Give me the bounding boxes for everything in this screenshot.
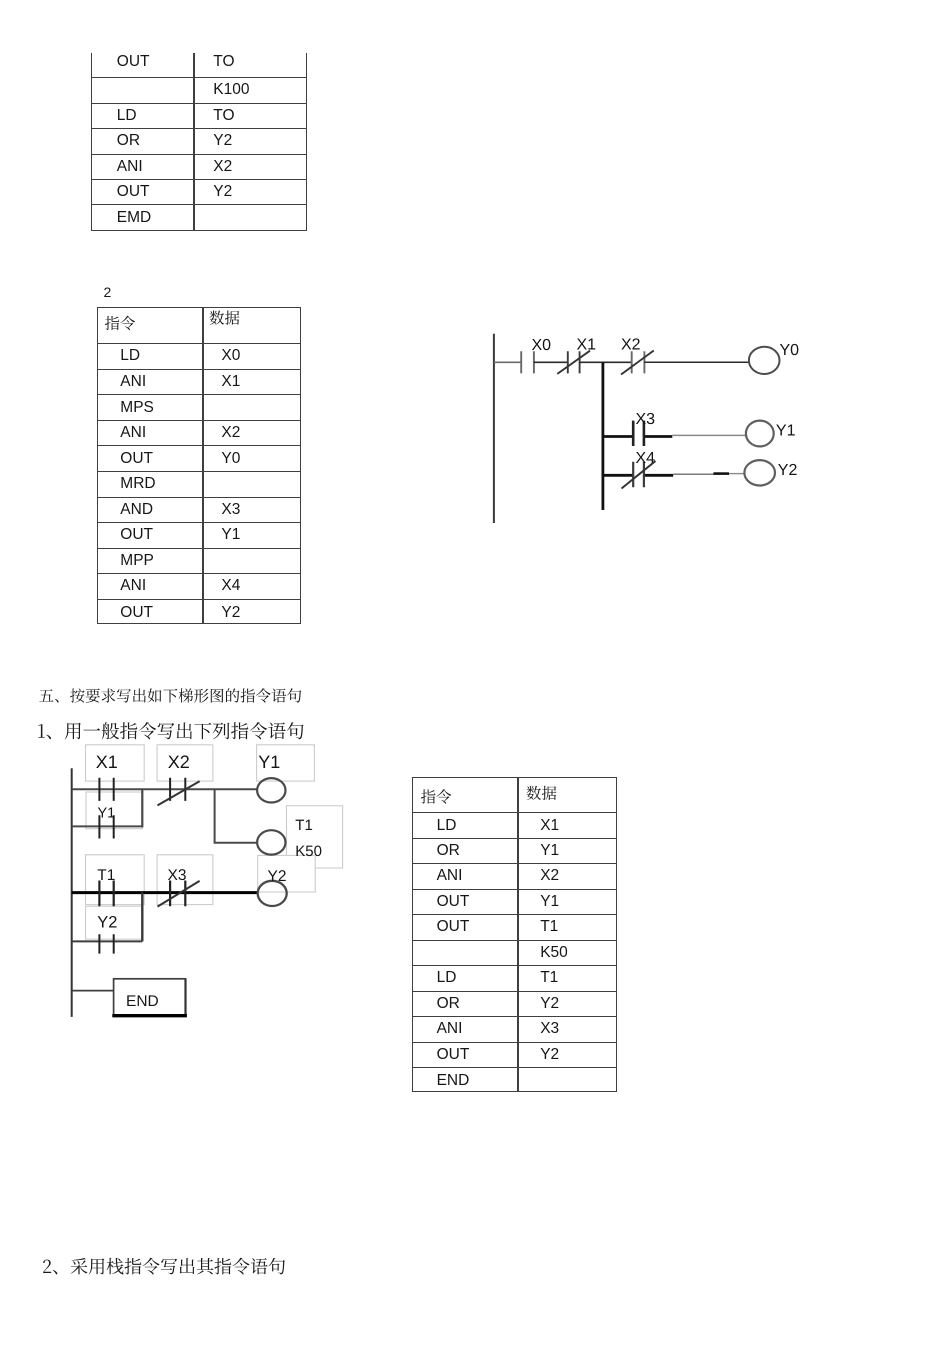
label box Y1 (coil) bbox=[257, 745, 315, 781]
contact X4 (NC) bbox=[633, 462, 644, 488]
Y2 parallel branch wire bbox=[72, 940, 143, 942]
Y1 branch riser bbox=[141, 789, 143, 827]
header 数据 table2 bbox=[210, 311, 240, 325]
rung1 wire bbox=[72, 788, 257, 790]
left power rail bbox=[493, 334, 495, 523]
rung3 thick wire bbox=[603, 474, 673, 477]
label box T1 K50 bbox=[287, 806, 343, 868]
label box T1 (left) bbox=[86, 855, 145, 905]
contact Y1 bbox=[99, 815, 113, 838]
label box Y2 (branch) bbox=[86, 906, 143, 939]
ladder diagram 2 (bottom left) bbox=[40, 735, 360, 1030]
END block bbox=[114, 979, 186, 1016]
END rung wire bbox=[72, 990, 114, 992]
heading 1、用一般指令写出下列指令语句 bbox=[38, 722, 303, 739]
label box Y1 (branch) bbox=[86, 792, 142, 829]
coil Y2 bbox=[744, 460, 775, 485]
junction vertical bus bbox=[602, 362, 605, 510]
ladder diagram 1 (top right) bbox=[470, 320, 830, 535]
contact X1 (NC) bbox=[568, 351, 580, 373]
branch wire to T1 coil bbox=[215, 789, 258, 842]
header 数据 table3 bbox=[526, 786, 556, 800]
rung3 wire (bold) bbox=[72, 891, 258, 894]
contact X0 bbox=[521, 351, 534, 373]
coil Y1 bbox=[746, 421, 774, 447]
heading 2、采用栈指令写出其指令语句 bbox=[43, 1258, 285, 1275]
coil Y2 bbox=[258, 881, 287, 906]
label 2 bbox=[104, 284, 112, 300]
contact X2 (NC) bbox=[170, 778, 185, 801]
label box X3 bbox=[157, 855, 213, 905]
coil Y1 bbox=[257, 778, 285, 802]
contact X2 (NC) bbox=[632, 351, 645, 373]
Y1 parallel branch wire bbox=[72, 825, 143, 827]
label box X1 bbox=[86, 745, 145, 781]
wire X1 to X2 bbox=[580, 361, 632, 363]
label box Y2 (coil) bbox=[258, 855, 316, 892]
rung2 thick wire bbox=[603, 435, 672, 438]
header 指令 table3 bbox=[421, 789, 451, 803]
heading 五、按要求写出如下梯形图的指令语句 bbox=[39, 688, 301, 702]
contact T1 bbox=[99, 881, 113, 907]
contact X1 bbox=[99, 778, 113, 801]
wire X0 to X1 bbox=[534, 361, 568, 363]
left power rail bbox=[71, 768, 73, 1017]
header 指令 table2 bbox=[105, 316, 135, 330]
coil T1 bbox=[257, 830, 285, 854]
contact X3 bbox=[633, 421, 644, 446]
wire X2 to coil Y0 bbox=[644, 361, 749, 363]
coil Y0 bbox=[749, 347, 780, 374]
wire rung1 rail to X0 bbox=[494, 361, 521, 363]
rung3 broken wire to coil bbox=[673, 473, 713, 475]
contact X3 (NC) bbox=[170, 881, 185, 907]
rung2 thin wire to coil bbox=[672, 434, 746, 436]
label box X2 bbox=[157, 745, 213, 781]
Y2 branch riser bbox=[141, 893, 143, 942]
contact Y2 bbox=[99, 934, 113, 953]
